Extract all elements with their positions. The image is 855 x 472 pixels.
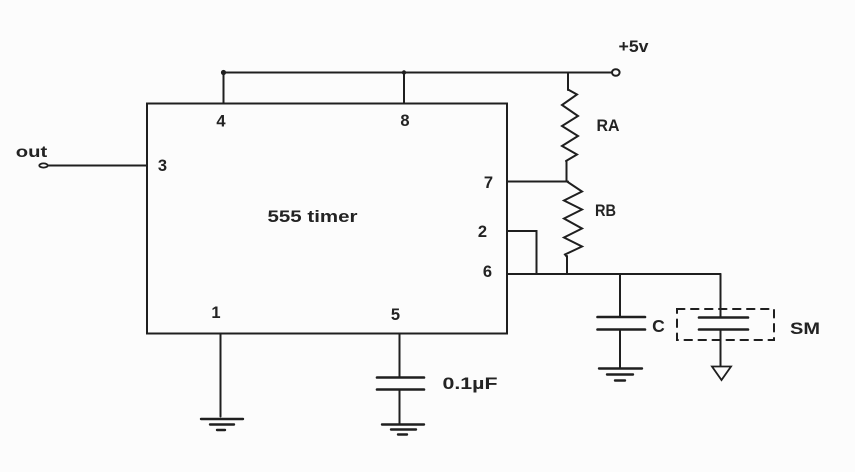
svg-text:+5v: +5v [619,38,650,56]
+5v terminal [612,69,620,76]
wire out to pin3 [48,165,147,167]
svg-text:C: C [652,316,665,336]
wire pin2 stub [507,231,537,274]
junction dot pin4 rail [221,70,226,75]
svg-text:RA: RA [597,117,620,135]
wire RA to node7 [566,161,568,182]
wire rail to RA [567,73,569,91]
capacitor C [598,317,646,330]
out terminal [39,163,47,167]
ground (pin5 cap) [382,425,424,435]
wire +5v rail [224,72,613,74]
wire pin7 to RA/RB junction [507,181,568,183]
wire pin1 to ground [220,334,222,417]
wire node6 to capacitor SM [720,274,722,317]
svg-text:3: 3 [158,157,167,175]
IC U1 555 timer body [147,104,507,334]
resistor RB [564,182,582,258]
capacitor C5 0.1uF [377,378,424,390]
wire pin5 to capacitor [399,334,401,378]
svg-text:2: 2 [478,223,487,241]
capacitor SM [699,318,748,330]
svg-text:0.1µF: 0.1µF [443,375,498,393]
wire pin6 net [507,273,721,275]
ground (C) [599,369,642,381]
ground (pin1) [201,419,243,430]
wire pin8 [403,73,405,104]
svg-text:8: 8 [400,112,409,130]
resistor RA [562,90,578,162]
wire capacitor SM to ground [720,330,722,367]
wire capacitor C to ground [619,330,621,369]
svg-text:out: out [16,144,48,161]
dashed enclosure SM [677,309,774,340]
svg-text:5: 5 [391,306,400,324]
junction dot pin8 rail [402,70,406,74]
wire RB to node6 [566,256,568,274]
ground (SM triangle) [712,367,731,381]
wire pin4 [223,73,225,104]
svg-text:555 timer: 555 timer [268,208,359,226]
svg-text:SM: SM [790,319,820,338]
svg-text:RB: RB [595,202,616,220]
wire capacitor C5 to ground [399,390,401,425]
svg-text:6: 6 [483,263,492,281]
wire node6 to capacitor C [619,274,621,317]
svg-text:1: 1 [211,304,220,322]
svg-text:7: 7 [484,174,493,192]
svg-text:4: 4 [216,113,226,131]
